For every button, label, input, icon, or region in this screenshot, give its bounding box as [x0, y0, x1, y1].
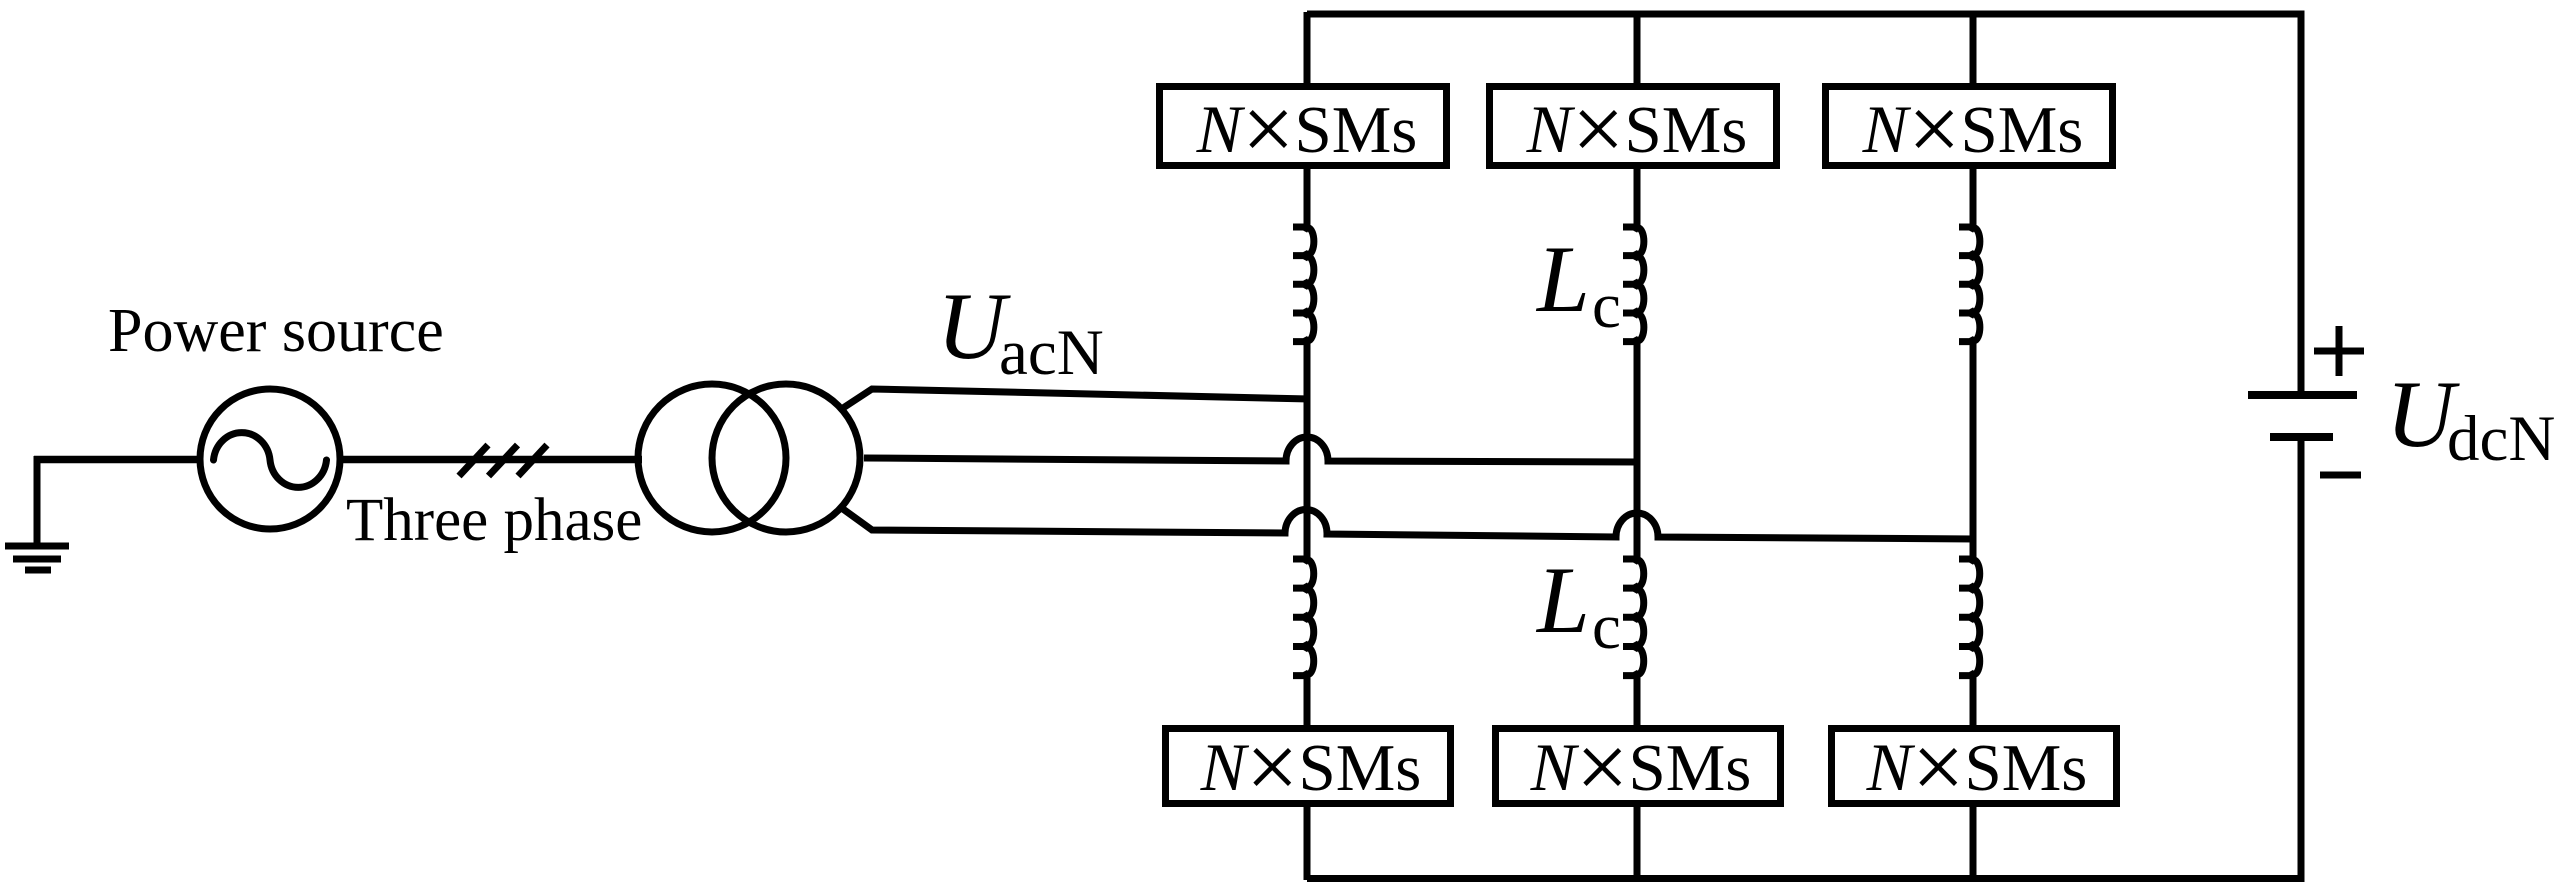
transformer T1 primary winding [638, 384, 786, 532]
wire lower inductor to lower SM box, phase B [1634, 674, 1641, 728]
wire top bus to upper SM box, phase B [1634, 12, 1641, 86]
wire upper inductor to lower inductor through AC node, phase B [1634, 340, 1641, 560]
minus sign [2320, 472, 2361, 479]
wire upper SM box to upper arm inductor, phase C [1970, 167, 1977, 229]
wire ground to AC source [34, 456, 200, 464]
submodule stack N x SMs box, upper arm phase C [1826, 87, 2113, 166]
wire lower SM box to bottom bus, phase A [1304, 805, 1311, 880]
battery UdcN long plate (+) [2248, 391, 2357, 399]
ac source G1 circle [200, 389, 340, 529]
plus sign [2314, 326, 2364, 376]
wire battery negative to negative DC bus (bottom) [1307, 441, 2301, 882]
svg-text:L: L [1535, 226, 1590, 332]
svg-text:L: L [1535, 547, 1590, 653]
inductor lower arm, phase B [1623, 559, 1644, 676]
wire lower SM box to bottom bus, phase B [1634, 805, 1641, 880]
ground [34, 456, 41, 545]
submodule stack N x SMs box, lower arm phase B [1496, 729, 1781, 804]
svg-text:Power source: Power source [108, 297, 444, 365]
svg-text:N×SMs: N×SMs [1200, 716, 1422, 819]
submodule stack N x SMs box, lower arm phase C [1832, 729, 2117, 804]
wire top bus to upper SM box, phase A [1304, 12, 1311, 86]
wire lower inductor to lower SM box, phase A [1304, 674, 1311, 728]
svg-text:c: c [1592, 591, 1621, 663]
submodule stack N x SMs box, upper arm phase A [1160, 87, 1447, 166]
battery UdcN short plate (-) [2270, 433, 2333, 441]
wire upper SM box to upper arm inductor, phase A [1304, 167, 1311, 229]
submodule stack N x SMs box, lower arm phase A [1166, 729, 1451, 804]
svg-text:c: c [1592, 270, 1621, 342]
wire upper SM box to upper arm inductor, phase B [1634, 167, 1641, 229]
svg-text:N×SMs: N×SMs [1526, 78, 1748, 181]
inductor lower arm, phase C [1959, 559, 1980, 676]
svg-text:N×SMs: N×SMs [1196, 78, 1418, 181]
svg-text:Three phase: Three phase [346, 487, 642, 554]
ac source sine wave [214, 433, 327, 488]
submodule stack N x SMs box, upper arm phase B [1490, 87, 1777, 166]
wire top bus to upper SM box, phase C [1970, 12, 1977, 86]
svg-text:N×SMs: N×SMs [1530, 716, 1752, 819]
three-phase slash marks [459, 445, 488, 476]
svg-text:N×SMs: N×SMs [1866, 716, 2088, 819]
wire upper inductor to lower inductor through AC node, phase C [1970, 340, 1977, 560]
inductor lower arm, phase A [1293, 559, 1314, 676]
inductor upper arm, phase C [1959, 227, 1980, 342]
inductor upper arm, phase A [1293, 227, 1314, 342]
wire AC phase b : transformer to leg 2, hop over leg 1 [864, 437, 1640, 462]
svg-text:dcN: dcN [2447, 403, 2555, 475]
wire positive DC bus (top) to battery positive [1307, 11, 2301, 393]
transformer T1 secondary winding [712, 384, 860, 532]
wire lower inductor to lower SM box, phase C [1970, 674, 1977, 728]
wire AC phase c : transformer to leg 3, hops over legs 1 and 2 [843, 509, 1976, 539]
svg-text:acN: acN [999, 317, 1104, 389]
wire AC source to transformer [340, 456, 642, 464]
wire AC phase a : transformer to leg 1 [843, 389, 1310, 408]
wire upper inductor to lower inductor through AC node, phase A [1304, 340, 1311, 560]
inductor upper arm, phase B [1623, 227, 1644, 342]
svg-text:N×SMs: N×SMs [1862, 78, 2084, 181]
wire lower SM box to bottom bus, phase C [1970, 805, 1977, 880]
